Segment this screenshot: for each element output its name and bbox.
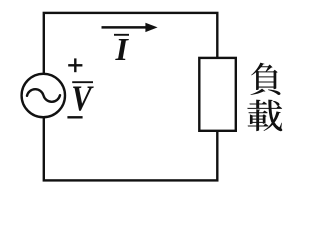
arrowhead [145,23,157,32]
svg-text:V: V [71,79,94,119]
sine wave inside source [27,89,60,102]
AC voltage source V1 [22,74,65,117]
minus polarity mark [67,116,82,118]
current arrow [102,26,148,29]
overline of V [72,81,93,83]
label V (phasor) [71,79,94,119]
label 負 (load, char 1) [251,63,281,95]
load box [199,58,236,131]
overline of I [114,34,129,36]
plus polarity mark [68,58,82,72]
wire loop [44,13,218,181]
label 載 (load, char 2) [247,100,282,132]
svg-text:I: I [115,31,130,67]
